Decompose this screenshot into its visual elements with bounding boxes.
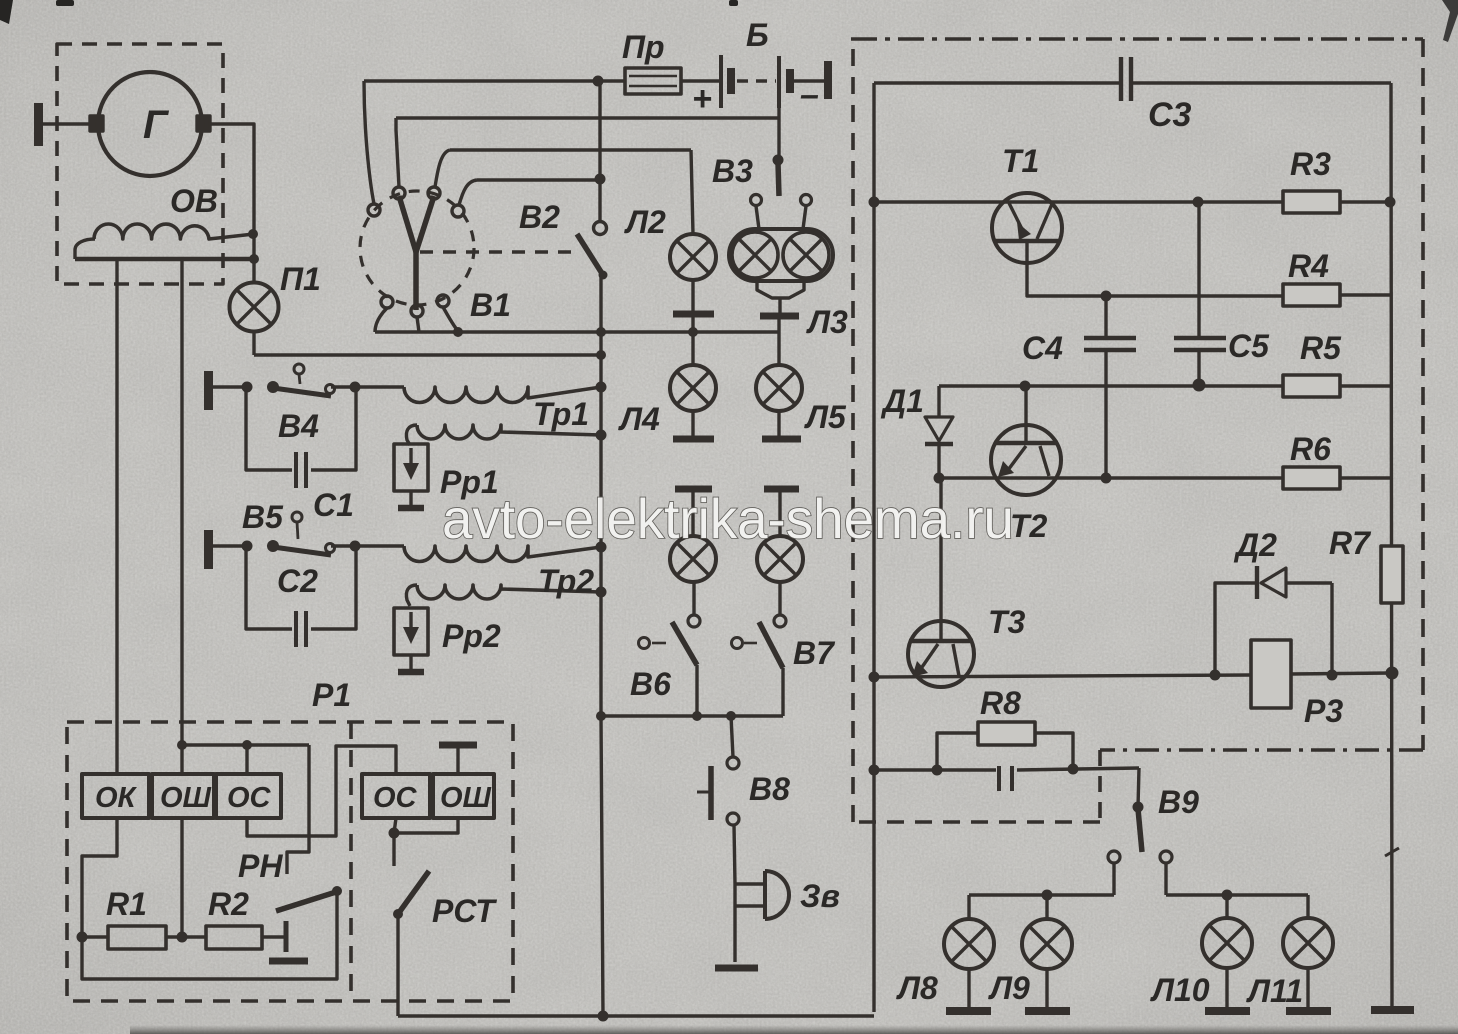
- svg-text:В8: В8: [749, 771, 790, 807]
- electronic block dashed border: [851, 37, 1423, 41]
- RST to bottom bus: [396, 914, 399, 1016]
- lamp L7 contact circle: [774, 615, 786, 627]
- svg-text:ОС: ОС: [227, 782, 272, 814]
- lamp L5 stem: [777, 332, 780, 365]
- resistor R1: [108, 926, 166, 949]
- svg-text:С3: С3: [1148, 96, 1192, 134]
- lamp L4 stem: [691, 332, 694, 365]
- switch V5 pivot blob: [267, 540, 279, 552]
- resistor R5: [1283, 375, 1340, 397]
- svg-text:В5: В5: [242, 499, 284, 535]
- wire y716: [601, 714, 783, 717]
- wire line332: [375, 330, 779, 333]
- node coil to vertical: [248, 229, 258, 239]
- right box OSh: [433, 774, 494, 818]
- svg-text:R3: R3: [1290, 146, 1331, 182]
- lamp L2 bottom stem: [691, 280, 694, 311]
- svg-text:Л10: Л10: [1150, 972, 1210, 1008]
- lamp L3 left element: [732, 232, 778, 278]
- D2 loop right: [1330, 583, 1333, 675]
- V9 contact left: [1108, 851, 1120, 863]
- OS to right box link: [247, 746, 396, 836]
- Rr2 arrow: [409, 612, 412, 634]
- svg-text:С1: С1: [313, 487, 354, 523]
- lamp L4: [670, 365, 716, 411]
- capacitor C2 plates: [296, 611, 306, 647]
- R8 line y770: [874, 768, 1139, 770]
- relay Rr1 box: [394, 444, 428, 491]
- svg-text:R6: R6: [1290, 431, 1331, 467]
- lamp L9: [1022, 919, 1072, 969]
- svg-text:Д1: Д1: [880, 383, 924, 419]
- Tr2 secondary winding: [417, 585, 601, 599]
- svg-text:–: –: [800, 76, 819, 114]
- lamps L8 L9 feed: [969, 895, 1114, 919]
- wire battery cell2 down to V3: [777, 108, 780, 161]
- svg-text:Б: Б: [746, 17, 769, 53]
- lamp L2 stem from line150: [691, 150, 693, 234]
- lamp P1 stem top: [252, 259, 255, 283]
- lamp L6 stem: [691, 492, 694, 536]
- svg-text:ОК: ОК: [95, 782, 138, 814]
- resistor R2: [206, 926, 262, 949]
- svg-text:ОШ: ОШ: [160, 782, 212, 814]
- svg-text:Г: Г: [143, 103, 170, 147]
- diode D2: [1255, 566, 1259, 599]
- svg-text:avto-elektrika-shema.ru: avto-elektrika-shema.ru: [442, 487, 1014, 550]
- capacitor C3 plates: [1121, 57, 1131, 101]
- resistor R6: [1283, 467, 1340, 489]
- wire contact to line118: [396, 118, 399, 187]
- svg-text:Л2: Л2: [624, 204, 666, 240]
- svg-text:Т3: Т3: [988, 604, 1026, 640]
- switch V7 pivot circle: [732, 638, 743, 649]
- diode D1: [925, 417, 953, 441]
- C3 top line right: [1133, 81, 1391, 84]
- dashed mech link distributor to V2: [420, 250, 572, 253]
- RN core hook: [287, 745, 309, 874]
- right rail ground bar: [1371, 1006, 1414, 1014]
- svg-text:Зв: Зв: [800, 878, 840, 914]
- T3 collector feed: [939, 478, 942, 641]
- tap ground bar: [269, 958, 308, 965]
- svg-text:С5: С5: [1228, 328, 1270, 364]
- wire coil left end down: [75, 239, 95, 259]
- rheostat tap bar: [284, 921, 289, 952]
- svg-text:+: +: [692, 80, 712, 118]
- svg-text:В9: В9: [1158, 784, 1199, 820]
- V4 ground terminal bar: [204, 371, 213, 410]
- Rr2 ground bar: [398, 669, 424, 676]
- svg-text:Рр2: Рр2: [442, 618, 501, 654]
- V5 ground terminal bar: [204, 530, 213, 569]
- V8 actuator: [708, 766, 714, 820]
- switch V9 blade: [1138, 809, 1142, 852]
- lamp L11: [1283, 918, 1333, 968]
- arm return loop: [82, 891, 337, 979]
- svg-text:Л4: Л4: [618, 401, 660, 437]
- switch V4 pivot blob: [267, 381, 279, 393]
- svg-text:С4: С4: [1022, 330, 1063, 366]
- resistor R7 vertical: [1381, 546, 1403, 603]
- L3 ground bar: [760, 313, 799, 320]
- switch V4 blade: [273, 388, 331, 396]
- svg-text:R8: R8: [980, 685, 1021, 721]
- block left rail: [872, 83, 875, 1012]
- lamp L7 stem: [778, 492, 781, 536]
- push button V8 stem: [731, 716, 733, 757]
- right OSh bottom lead: [394, 818, 458, 833]
- right OS bottom node: [394, 818, 396, 866]
- svg-text:R1: R1: [106, 886, 147, 922]
- wire terminal to generator: [42, 122, 98, 125]
- right rail break tick: [1385, 848, 1399, 856]
- switch V5 toggle circle: [292, 512, 302, 522]
- wire drop to OK: [115, 259, 118, 774]
- connector bars second row: [675, 486, 712, 493]
- field winding OV coil: [94, 224, 254, 239]
- R6 line y478: [939, 476, 1283, 479]
- svg-text:ОВ: ОВ: [170, 183, 218, 219]
- svg-text:R7: R7: [1329, 525, 1372, 561]
- Tr1 primary winding: [404, 387, 601, 403]
- wire to V5: [213, 544, 247, 547]
- generator G circle: [98, 72, 202, 176]
- Rr1 arrow: [409, 448, 412, 470]
- node main vertical line180: [595, 174, 606, 185]
- switch V6 pivot circle: [639, 638, 650, 649]
- wire bottom contact right: [443, 307, 458, 331]
- wire drop to OSh: [180, 259, 183, 774]
- lamp L5: [756, 365, 802, 411]
- diode D1 lead: [937, 386, 940, 417]
- svg-text:С2: С2: [277, 563, 318, 599]
- switch V7 blade: [759, 622, 783, 668]
- generator left terminal bar: [34, 103, 43, 146]
- generator brush pad right: [197, 116, 210, 131]
- wire top bus y81: [364, 79, 625, 82]
- wire generator bottom bus: [75, 257, 254, 262]
- lamp L3 stadium body: [729, 229, 833, 281]
- svg-text:Тр1: Тр1: [533, 396, 589, 432]
- svg-text:В6: В6: [630, 666, 671, 702]
- svg-text:ОС: ОС: [373, 782, 418, 814]
- svg-text:Л9: Л9: [988, 970, 1030, 1006]
- switch V3 blade: [778, 163, 779, 196]
- lamp P1: [230, 283, 279, 332]
- svg-text:Р3: Р3: [1304, 693, 1343, 729]
- svg-text:В3: В3: [712, 153, 753, 189]
- capacitor C1 plates: [296, 452, 306, 488]
- switch V2 blade: [577, 234, 603, 275]
- lamp L7: [757, 536, 803, 582]
- L2 ground bar: [673, 311, 714, 318]
- lamp L6: [670, 536, 716, 582]
- resistor R4: [1283, 284, 1340, 306]
- fuse Pr: [625, 68, 681, 94]
- lamp L3 terminal circles: [751, 195, 762, 206]
- switch V3 node: [773, 155, 784, 166]
- wire generator right to x254: [209, 124, 254, 259]
- switch V6 blade: [672, 622, 697, 665]
- svg-text:РН: РН: [238, 848, 283, 884]
- battery cell2 short plate: [786, 69, 794, 93]
- svg-text:R2: R2: [208, 886, 249, 922]
- lamp P1 stem bottom: [252, 331, 255, 355]
- svg-text:В1: В1: [470, 287, 511, 323]
- switch V4 contact: [326, 385, 335, 394]
- terminal box OS: [216, 774, 281, 818]
- lamp L2: [670, 234, 716, 280]
- wire P1 to main vertical: [254, 353, 601, 356]
- wire V4 row to Tr1: [331, 385, 404, 388]
- capacitor C4 plates: [1084, 338, 1136, 350]
- wire contact to top bus: [364, 81, 374, 204]
- terminal box OK: [82, 774, 149, 818]
- OK bottom lead: [82, 818, 117, 937]
- svg-text:П1: П1: [280, 261, 321, 297]
- relay P3 box: [1251, 640, 1291, 708]
- generator dashed enclosure: [57, 44, 223, 284]
- L4 ground bar: [673, 436, 714, 443]
- node bus P1: [249, 254, 259, 264]
- D2 P3 loop left: [1215, 583, 1256, 675]
- terminal box OSh: [152, 774, 214, 818]
- svg-text:Л11: Л11: [1246, 973, 1303, 1009]
- transistor T1: [992, 193, 1062, 263]
- distributor V1 dashed circle: [360, 191, 474, 305]
- svg-text:В7: В7: [793, 635, 836, 671]
- svg-text:Пр: Пр: [622, 29, 665, 65]
- battery middle dashes: [737, 79, 776, 82]
- lamp L8: [944, 919, 994, 969]
- svg-text:РСТ: РСТ: [432, 893, 497, 929]
- wire contact to line150: [435, 150, 450, 187]
- svg-text:Л5: Л5: [804, 399, 847, 435]
- C2 loop: [246, 546, 356, 629]
- wire contact to line180: [459, 180, 477, 205]
- right box OS: [362, 774, 430, 818]
- wire bottom contact mid: [417, 317, 419, 332]
- wire fuse to battery: [681, 79, 721, 82]
- right OSh top terminal: [456, 748, 459, 774]
- Tr1 secondary winding: [417, 425, 601, 439]
- wire bottom contact left to line332: [375, 308, 387, 332]
- svg-text:Л3: Л3: [806, 304, 848, 340]
- wire line118: [396, 116, 779, 119]
- regulator P1 dashed box: [67, 722, 513, 1001]
- Rr1 ground bar: [398, 505, 424, 512]
- relay contact plates: [999, 766, 1012, 791]
- capacitor C5 plates: [1174, 338, 1226, 350]
- battery cell1 short plate: [727, 68, 735, 94]
- switch V5 blade: [273, 547, 331, 555]
- battery end terminal bar: [824, 61, 832, 99]
- wire to V4: [213, 385, 247, 388]
- Tr2 primary winding: [404, 546, 601, 562]
- main vertical lower: [601, 275, 603, 1016]
- switch V4 toggle circle: [294, 364, 304, 374]
- battery B cell1 long plate: [719, 55, 723, 108]
- transistor T3: [908, 621, 974, 687]
- svg-text:Тр2: Тр2: [538, 563, 594, 599]
- svg-text:В2: В2: [519, 199, 560, 235]
- P1 dashed divider: [349, 722, 353, 1001]
- block right rail: [1391, 83, 1392, 1010]
- switch V5 contact: [326, 544, 335, 553]
- resistor R3: [1283, 191, 1340, 213]
- wire y745: [182, 743, 309, 746]
- wire battery minus: [793, 79, 826, 82]
- T1 base lead: [1027, 241, 1283, 296]
- relay Rr2 box: [394, 608, 428, 655]
- main vertical upper: [598, 81, 601, 222]
- svg-text:Д2: Д2: [1233, 527, 1277, 563]
- svg-text:Т2: Т2: [1010, 508, 1048, 544]
- V9 contact right: [1160, 851, 1172, 863]
- svg-text:R4: R4: [1288, 248, 1329, 284]
- buzzer Zv terminals: [735, 884, 764, 962]
- R5 line y386: [939, 384, 1283, 387]
- node top bus / main vertical: [593, 76, 604, 87]
- C1 loop: [246, 387, 356, 470]
- lamp L6 contact circle: [688, 615, 700, 627]
- wire line150: [450, 148, 691, 151]
- OSh bottom lead: [180, 818, 183, 937]
- lamp L10: [1202, 918, 1252, 968]
- switch V2 contact circle: [594, 222, 607, 235]
- wire V5 row to Tr2: [331, 544, 404, 547]
- svg-text:R5: R5: [1300, 330, 1342, 366]
- switch V9 feed: [1138, 768, 1139, 807]
- svg-text:Т1: Т1: [1002, 143, 1039, 179]
- capacitor C4 leads: [1104, 296, 1107, 478]
- transistor T2: [991, 425, 1061, 495]
- distributor rotor V: [399, 196, 434, 252]
- battery cell2 long plate: [777, 56, 781, 108]
- switch RST blade: [398, 871, 429, 914]
- T3 emitter line y677: [874, 675, 1251, 677]
- wire line180: [477, 178, 600, 181]
- rheostat arm: [276, 892, 336, 911]
- Zv ground bar: [715, 965, 758, 972]
- svg-text:В4: В4: [278, 408, 319, 444]
- svg-text:Р1: Р1: [312, 677, 351, 713]
- resistor R8 bypass: [937, 733, 1073, 770]
- C3 top line left: [874, 81, 1119, 84]
- lamps L10 L11 feed: [1166, 895, 1308, 918]
- L5 ground bar: [762, 436, 801, 443]
- svg-text:Л8: Л8: [896, 970, 938, 1006]
- bottom bus: [398, 1014, 874, 1017]
- lamp L3 right element: [783, 232, 829, 278]
- distributor contacts: [368, 204, 380, 216]
- generator brush pad left: [90, 116, 103, 131]
- svg-text:ОШ: ОШ: [440, 782, 492, 814]
- buzzer Zv body: [765, 871, 789, 919]
- T1 collector line y202: [874, 200, 1283, 203]
- lamp L3 base: [757, 281, 804, 298]
- capacitor C5 leads: [1197, 202, 1200, 384]
